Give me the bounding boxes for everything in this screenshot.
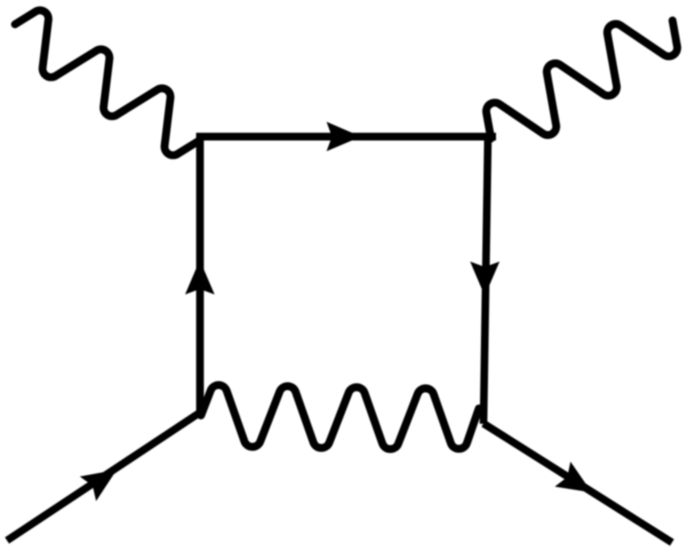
arrow incoming leg — [80, 470, 117, 501]
fermion left vertical line — [196, 133, 204, 413]
fermion top line — [196, 133, 496, 141]
fermion right vertical line — [484, 133, 489, 424]
photon gamma1 (incoming, top-left) — [15, 10, 198, 155]
photon gamma2 (outgoing, top-right) — [486, 21, 677, 139]
boson wave (bottom exchange) — [201, 385, 479, 449]
fermion incoming leg — [7, 413, 200, 541]
arrow top fermion — [327, 122, 362, 152]
arrow right fermion down — [470, 262, 500, 297]
arrow left fermion up — [185, 260, 215, 295]
fermion outgoing leg — [484, 424, 673, 543]
arrow outgoing leg — [555, 462, 592, 493]
